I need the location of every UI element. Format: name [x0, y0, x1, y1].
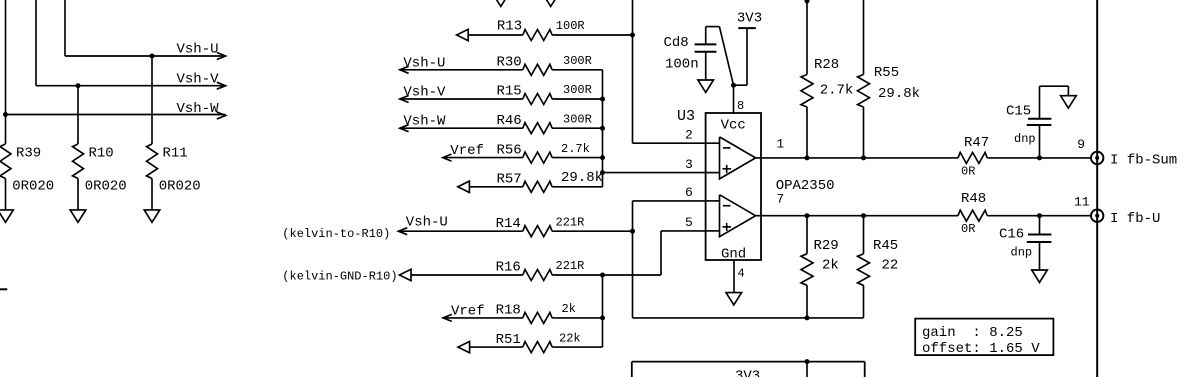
svg-text:0R020: 0R020: [12, 178, 54, 194]
resistor R29: [801, 216, 839, 318]
svg-text:R14: R14: [496, 216, 521, 232]
svg-text:R47: R47: [964, 135, 989, 151]
wire bus: [602, 275, 604, 347]
wire: [36, 0, 226, 86]
node input port arrow: [457, 29, 469, 40]
ground: [493, 0, 509, 6]
junction: [630, 33, 635, 38]
svg-text:29.8k: 29.8k: [561, 170, 603, 186]
svg-text:R18: R18: [496, 303, 521, 319]
svg-text:0R: 0R: [961, 222, 975, 236]
node Vref arrow: [443, 303, 485, 321]
svg-text:300R: 300R: [563, 54, 592, 68]
node Vsh-U arrow: [177, 42, 226, 60]
svg-text:8: 8: [737, 99, 744, 113]
svg-text:100R: 100R: [556, 19, 585, 33]
svg-text:Vsh-V: Vsh-V: [177, 71, 220, 87]
wire fragment: [0, 288, 7, 290]
svg-text:9: 9: [1077, 137, 1085, 152]
svg-text:3V3: 3V3: [737, 11, 762, 27]
wire: [443, 157, 523, 159]
node Vsh-V arrow: [400, 85, 446, 103]
svg-text:300R: 300R: [563, 83, 592, 97]
wire: [552, 69, 602, 71]
svg-text:R13: R13: [497, 19, 522, 35]
svg-text:3V3: 3V3: [735, 369, 760, 377]
svg-text:Vsh-W: Vsh-W: [403, 114, 446, 130]
pin 3: [685, 157, 720, 173]
op-amp U3 B: [720, 195, 756, 237]
svg-text:I fb-U: I fb-U: [1110, 211, 1160, 227]
svg-text:R51: R51: [496, 332, 521, 348]
wire: [552, 274, 661, 276]
pin 6: [685, 185, 720, 201]
wire: [400, 127, 523, 129]
node input port arrow: [458, 181, 470, 192]
junction: [3, 112, 8, 117]
svg-text:Cd8: Cd8: [664, 35, 689, 51]
wire: [77, 86, 79, 144]
junction: [731, 83, 736, 88]
junction: [150, 54, 155, 59]
junction: [805, 359, 810, 364]
capacitor Cd8: [664, 27, 734, 86]
svg-text:offset: 1.65 V: offset: 1.65 V: [922, 341, 1040, 357]
svg-text:R46: R46: [497, 113, 522, 129]
svg-text:6: 6: [685, 185, 693, 200]
resistor R51: [496, 331, 581, 352]
svg-text:dnp: dnp: [1011, 245, 1033, 259]
wire: [864, 215, 959, 217]
junction: [600, 170, 605, 175]
svg-text:R28: R28: [814, 57, 839, 73]
wire pin6: [633, 201, 864, 318]
svg-text:C16: C16: [999, 227, 1024, 243]
junction: [630, 229, 635, 234]
svg-text:(kelvin-GND-R10): (kelvin-GND-R10): [282, 270, 397, 284]
junction: [600, 273, 605, 278]
node Vref arrow: [443, 143, 484, 161]
ground: [1061, 96, 1077, 108]
power 3V3: [734, 11, 763, 86]
svg-text:R48: R48: [961, 191, 986, 207]
svg-text:R29: R29: [814, 238, 839, 254]
svg-text:R16: R16: [496, 260, 521, 276]
svg-text:29.8k: 29.8k: [878, 86, 920, 102]
svg-text:2k: 2k: [822, 258, 839, 274]
wire: [552, 127, 602, 129]
wire: [5, 0, 7, 115]
pin 2: [685, 128, 720, 144]
svg-text:Vsh-U: Vsh-U: [403, 55, 445, 71]
svg-text:1: 1: [776, 137, 784, 152]
junction: [1037, 213, 1042, 218]
svg-text:0R020: 0R020: [159, 178, 201, 194]
pin 1: [756, 137, 864, 158]
wire: [987, 215, 1090, 217]
wire: [400, 69, 523, 71]
svg-text:300R: 300R: [563, 112, 592, 126]
wire: [552, 346, 602, 348]
junction: [76, 83, 81, 88]
svg-text:5: 5: [685, 215, 693, 230]
svg-text:C15: C15: [1006, 103, 1031, 119]
junction: [600, 315, 605, 320]
svg-text:22k: 22k: [559, 331, 581, 345]
node Ifb-U terminal: [1074, 195, 1160, 227]
svg-text:dnp: dnp: [1014, 132, 1036, 146]
svg-text:R45: R45: [873, 238, 898, 254]
ground: [543, 0, 559, 6]
svg-text:100n: 100n: [665, 56, 699, 72]
svg-text:U3: U3: [677, 108, 695, 125]
pin 7: [756, 191, 864, 215]
resistor R39: [0, 144, 54, 210]
svg-text:Vsh-U: Vsh-U: [177, 42, 219, 58]
wire: [400, 98, 523, 100]
wire pin3: [603, 172, 706, 174]
svg-text:(kelvin-to-R10): (kelvin-to-R10): [282, 227, 390, 241]
svg-text:gain : 8.25: gain : 8.25: [922, 325, 1023, 341]
node input port arrow: [458, 341, 470, 352]
wire: [552, 157, 602, 159]
ground: [144, 210, 160, 222]
svg-text:221R: 221R: [556, 215, 585, 229]
wire: [469, 186, 522, 188]
junction: [805, 0, 810, 4]
svg-text:2.7k: 2.7k: [820, 82, 854, 98]
pin 8: [734, 85, 745, 113]
resistor R45: [858, 216, 899, 318]
junction: [600, 97, 605, 102]
svg-text:R57: R57: [497, 172, 522, 188]
node Vsh-U arrow: [400, 55, 446, 73]
svg-text:Vref: Vref: [450, 143, 484, 159]
resistor R18: [496, 302, 576, 323]
junction: [805, 213, 810, 218]
resistor R14: [496, 215, 585, 236]
wire Vsh-W row: [6, 114, 226, 116]
svg-text:2.7k: 2.7k: [561, 142, 590, 156]
wire: [411, 274, 523, 276]
wire: [552, 34, 632, 36]
wire: [552, 317, 602, 319]
svg-text:0R: 0R: [961, 164, 975, 178]
resistor R10: [73, 144, 127, 210]
resistor R46: [497, 112, 592, 133]
resistor R57: [497, 170, 604, 192]
svg-text:Vcc: Vcc: [721, 118, 746, 134]
wire: [552, 98, 602, 100]
svg-text:Vref: Vref: [451, 303, 485, 319]
pin 4: [734, 260, 745, 293]
resistor R16: [496, 259, 585, 280]
resistor R28: [801, 0, 853, 158]
pin 5: [685, 215, 720, 231]
label OPA2350: [776, 178, 835, 194]
svg-text:2: 2: [685, 128, 693, 143]
wire pin5: [661, 231, 706, 275]
svg-text:R30: R30: [497, 55, 522, 71]
wire: [398, 230, 522, 232]
wire sheet symbol edge: [1096, 0, 1098, 377]
svg-text:I fb-Sum: I fb-Sum: [1110, 153, 1177, 169]
wire: [864, 157, 959, 159]
svg-text:3: 3: [685, 157, 693, 172]
wire bus: [602, 70, 604, 187]
junction: [600, 155, 605, 160]
ground: [1032, 270, 1048, 282]
svg-text:11: 11: [1074, 195, 1090, 210]
svg-text:2k: 2k: [562, 302, 576, 316]
ground: [698, 80, 714, 92]
resistor R56: [497, 142, 590, 163]
svg-text:R55: R55: [874, 65, 899, 81]
resistor R55: [858, 0, 921, 158]
node Vsh-V arrow: [177, 71, 226, 89]
svg-text:R15: R15: [497, 84, 522, 100]
wire: [151, 56, 153, 144]
svg-text:Vsh-U: Vsh-U: [406, 214, 448, 230]
junction: [600, 126, 605, 131]
svg-text:OPA2350: OPA2350: [776, 178, 835, 194]
node Vsh-W arrow: [400, 114, 446, 132]
wire: [5, 115, 7, 145]
label Gnd: [721, 246, 746, 262]
node Vsh-W arrow: [177, 101, 226, 119]
resistor R48: [958, 191, 987, 236]
node Ifb-Sum terminal: [1077, 137, 1177, 169]
resistor R13: [497, 19, 585, 41]
wire: [65, 0, 226, 56]
wire: [468, 34, 523, 36]
wire bus: [633, 0, 706, 143]
op-amp U3 box: [677, 108, 761, 260]
resistor R15: [497, 83, 592, 104]
wire: [987, 157, 1090, 159]
sheet symbol box 3V3: [632, 362, 865, 377]
svg-text:0R020: 0R020: [85, 178, 127, 194]
wire: [443, 317, 523, 319]
svg-text:4: 4: [738, 267, 745, 281]
wire: [552, 230, 632, 232]
op-amp U3 A: [720, 137, 756, 179]
node kelvin-GND-R10 port: [282, 269, 411, 283]
ground: [0, 210, 13, 222]
svg-text:7: 7: [776, 191, 784, 206]
capacitor C16: [999, 216, 1051, 270]
node kelvin-to-R10: [282, 227, 390, 241]
resistor R47: [958, 135, 989, 179]
wire: [470, 346, 523, 348]
svg-text:R11: R11: [163, 146, 188, 162]
ground: [70, 210, 86, 222]
junction: [805, 315, 810, 320]
svg-text:R39: R39: [16, 146, 41, 162]
junction: [1037, 155, 1042, 160]
capacitor C15: [1006, 86, 1068, 158]
wire: [552, 186, 602, 188]
junction: [861, 213, 866, 218]
junction: [861, 155, 866, 160]
junction: [805, 155, 810, 160]
svg-text:Vsh-W: Vsh-W: [177, 101, 220, 117]
svg-text:R56: R56: [497, 142, 522, 158]
svg-text:22: 22: [882, 258, 899, 274]
resistor R11: [147, 144, 201, 210]
ground: [726, 293, 742, 305]
svg-text:R10: R10: [89, 146, 114, 162]
svg-text:Vsh-V: Vsh-V: [403, 85, 446, 101]
note gain/offset box: [915, 319, 1053, 357]
resistor R30: [497, 54, 592, 75]
svg-text:Gnd: Gnd: [721, 246, 746, 262]
node Vsh-U arrow: [398, 214, 447, 234]
label Vcc: [721, 118, 746, 134]
svg-text:221R: 221R: [556, 259, 585, 273]
